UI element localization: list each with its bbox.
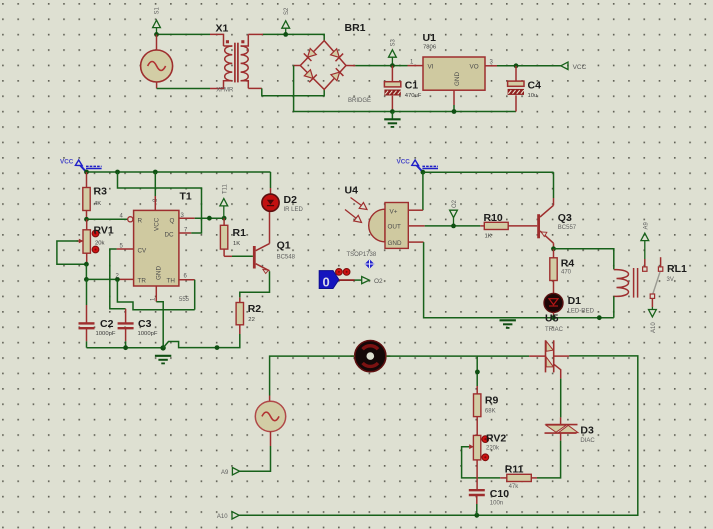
svg-text:X1: X1 bbox=[216, 23, 229, 35]
svg-text:R9: R9 bbox=[485, 395, 499, 407]
node S2 terminal bbox=[282, 7, 290, 34]
wire TR bus down bbox=[117, 279, 194, 309]
junction C4 top bbox=[514, 63, 519, 68]
power VCC symbol (left) bbox=[60, 159, 102, 172]
wire D3 to R11 bbox=[537, 441, 561, 478]
svg-text:VO: VO bbox=[470, 64, 479, 71]
VCC rail (receiver section) bbox=[423, 171, 554, 173]
node A9 terminal (left) bbox=[221, 468, 240, 477]
junction Q wire bbox=[207, 216, 212, 221]
junction rail 555 vcc bbox=[153, 170, 158, 175]
svg-text:220k: 220k bbox=[486, 446, 500, 452]
svg-text:BC557: BC557 bbox=[558, 225, 577, 231]
junction rail right bbox=[597, 315, 602, 320]
transistor Q3 bbox=[537, 198, 553, 249]
junction RV1 wiper bbox=[84, 262, 89, 267]
wire rail to D2 bbox=[270, 172, 272, 194]
node O2 input terminal bbox=[450, 199, 458, 226]
resistor R4 bbox=[550, 249, 557, 294]
wire 555 vcc pin bbox=[154, 172, 156, 210]
node A10 terminal (left) bbox=[217, 512, 239, 520]
junction R3/RV1 bbox=[84, 217, 89, 222]
relay RL1 contacts bbox=[643, 257, 663, 307]
wire reset pin bbox=[87, 218, 128, 220]
triac U5 bbox=[546, 340, 561, 378]
svg-text:TH: TH bbox=[167, 277, 176, 284]
wire probe to O2 bbox=[339, 279, 362, 281]
svg-text:TRIAC: TRIAC bbox=[545, 327, 564, 333]
svg-text:R11: R11 bbox=[505, 464, 524, 476]
IR receiver U4 bbox=[369, 203, 409, 249]
svg-text:Q3: Q3 bbox=[558, 212, 572, 224]
svg-text:U5: U5 bbox=[545, 313, 559, 325]
AC source V1 bbox=[141, 34, 173, 82]
svg-text:1000pF: 1000pF bbox=[96, 331, 116, 337]
bottom rail (555) bbox=[87, 347, 164, 349]
svg-text:BRIDGE: BRIDGE bbox=[348, 98, 371, 104]
junction U1 gnd bbox=[452, 109, 457, 114]
svg-text:XFMR: XFMR bbox=[216, 88, 234, 94]
svg-text:VI: VI bbox=[428, 64, 434, 71]
wire U1 GND pin to rail bbox=[453, 90, 455, 111]
svg-text:Q1: Q1 bbox=[277, 240, 291, 252]
wire bridge right to U1 bbox=[346, 65, 423, 67]
svg-text:C10: C10 bbox=[490, 488, 509, 500]
svg-text:T1: T1 bbox=[180, 191, 192, 203]
svg-text:10u: 10u bbox=[528, 93, 538, 99]
svg-text:A10: A10 bbox=[217, 514, 228, 520]
wire RV1 to TR bbox=[85, 264, 87, 279]
junction VCC right bbox=[421, 170, 426, 175]
potentiometer RV1 bbox=[57, 219, 91, 264]
transistor Q1 bbox=[253, 211, 270, 273]
wire transformer secondary top to bridge bbox=[248, 34, 324, 41]
voltage regulator U1 bbox=[423, 57, 485, 90]
led D2 bbox=[262, 194, 279, 211]
bridge rectifier BR1 bbox=[300, 41, 346, 90]
resistor R2 bbox=[236, 297, 243, 334]
svg-text:0: 0 bbox=[323, 275, 330, 290]
svg-text:TSOP1738: TSOP1738 bbox=[347, 252, 377, 258]
svg-text:R4: R4 bbox=[561, 258, 575, 270]
svg-text:D1: D1 bbox=[568, 295, 582, 307]
potentiometer RV2 bbox=[462, 435, 501, 490]
wire 555 gnd pin bbox=[156, 286, 163, 310]
svg-text:A9: A9 bbox=[643, 221, 649, 229]
svg-text:RL1: RL1 bbox=[667, 263, 687, 275]
relay RL1 coil bbox=[614, 268, 638, 298]
capacitor C2 bbox=[79, 279, 95, 347]
wire V2 to A9 bbox=[240, 432, 271, 472]
svg-text:7806: 7806 bbox=[423, 45, 437, 51]
svg-text:D2: D2 bbox=[284, 194, 298, 206]
wire Q1 emitter to R2 bbox=[240, 271, 270, 297]
svg-text:O2: O2 bbox=[374, 278, 383, 285]
svg-text:20k: 20k bbox=[95, 241, 105, 247]
wire V1 bottom to transformer bbox=[157, 80, 224, 89]
wire Q3 to relay coil bbox=[554, 249, 614, 270]
node T11 terminal bbox=[220, 183, 228, 218]
svg-text:TR: TR bbox=[138, 277, 147, 284]
lamp bbox=[351, 341, 391, 372]
svg-text:555: 555 bbox=[179, 297, 190, 303]
svg-text:C4: C4 bbox=[528, 80, 542, 92]
svg-text:GND: GND bbox=[454, 72, 461, 86]
RV2 red marker bottom bbox=[482, 454, 489, 461]
wire VCC to U4 V+ bbox=[408, 172, 423, 210]
svg-text:A9: A9 bbox=[221, 470, 229, 476]
junction TR bbox=[84, 277, 89, 282]
node A9 relay terminal bbox=[641, 221, 649, 259]
RV1 red marker bottom bbox=[92, 246, 99, 253]
wire 555 output Q bbox=[179, 217, 224, 219]
junction C3 bottom bbox=[123, 345, 128, 350]
wire gnd bus down bbox=[162, 310, 164, 348]
timer T1 (555) body bbox=[128, 210, 179, 286]
probe state marker 1 bbox=[336, 269, 343, 276]
junction S1 bbox=[154, 32, 159, 37]
wire U1 output bbox=[485, 65, 561, 67]
wire bridge left to ground rail bbox=[294, 66, 393, 112]
junction S2 bbox=[283, 32, 288, 37]
ground rail under U1 bbox=[392, 111, 516, 113]
svg-text:R1: R1 bbox=[233, 227, 247, 239]
svg-text:U4: U4 bbox=[345, 185, 359, 197]
transformer X1 bbox=[224, 34, 249, 88]
capacitor C1 bbox=[384, 66, 400, 112]
junction rail pin7 branch bbox=[115, 170, 120, 175]
wire 555 DC pin to rail bbox=[118, 172, 202, 233]
svg-text:IR LED: IR LED bbox=[284, 207, 304, 213]
junction TR bus bbox=[115, 277, 120, 282]
svg-text:OUT: OUT bbox=[388, 224, 401, 231]
junction O2/OUT bbox=[451, 224, 456, 229]
wire triac gate to D3 bbox=[560, 379, 562, 418]
svg-text:100n: 100n bbox=[490, 501, 503, 507]
svg-text:1K: 1K bbox=[485, 234, 492, 240]
U4 IR arrow 1 bbox=[351, 198, 370, 213]
wire lamp to V2 bbox=[270, 356, 355, 402]
junction C10 bottom bbox=[474, 513, 479, 518]
svg-text:U1: U1 bbox=[423, 32, 437, 44]
marker diamond bbox=[365, 259, 375, 269]
junction Q/R1/T11 bbox=[222, 216, 227, 221]
resistor R3 bbox=[83, 172, 90, 219]
resistor R9 bbox=[474, 394, 481, 436]
resistor R10 bbox=[484, 222, 508, 229]
node A10 relay terminal bbox=[649, 307, 658, 333]
junction rail R2 bbox=[215, 345, 220, 350]
svg-text:VCC: VCC bbox=[154, 217, 161, 231]
ground (555) bbox=[155, 355, 171, 357]
RV1 red marker top bbox=[92, 230, 99, 237]
junction R9 branch bbox=[475, 370, 480, 375]
resistor R11 bbox=[500, 474, 537, 481]
junction rail R3 bbox=[84, 170, 89, 175]
svg-text:1K: 1K bbox=[233, 241, 240, 247]
wire U4 GND down bbox=[408, 242, 614, 318]
bottom rail A10 bbox=[239, 356, 638, 515]
logic probe 0 bbox=[319, 271, 339, 290]
svg-text:S3: S3 bbox=[391, 38, 397, 46]
svg-text:T11: T11 bbox=[222, 183, 228, 194]
junction C1 top bbox=[390, 63, 395, 68]
svg-text:LED-RED: LED-RED bbox=[568, 309, 595, 315]
ground (top rail) bbox=[384, 112, 400, 127]
svg-text:1000pF: 1000pF bbox=[138, 331, 158, 337]
node S3 terminal bbox=[389, 38, 397, 65]
svg-text:A10: A10 bbox=[651, 322, 657, 333]
diac D3 bbox=[545, 417, 579, 440]
node S1 terminal bbox=[153, 6, 161, 34]
svg-text:470uF: 470uF bbox=[405, 93, 422, 99]
capacitor C4 bbox=[508, 66, 524, 112]
svg-text:68K: 68K bbox=[485, 409, 496, 415]
resistor R1 bbox=[220, 218, 232, 256]
wire triac right side bbox=[554, 355, 570, 357]
svg-text:S1: S1 bbox=[155, 6, 161, 14]
wire R1 to Q1 base bbox=[232, 255, 253, 257]
svg-text:R: R bbox=[138, 217, 143, 224]
wire U4 OUT to R10 bbox=[408, 225, 484, 227]
junction Q3 collector bbox=[551, 246, 556, 251]
svg-text:C3: C3 bbox=[138, 318, 152, 330]
junction C1 bottom bbox=[390, 109, 395, 114]
svg-text:GND: GND bbox=[388, 240, 402, 247]
svg-text:GND: GND bbox=[156, 266, 163, 280]
svg-text:DIAC: DIAC bbox=[580, 438, 595, 444]
power VCC symbol (right) bbox=[397, 159, 439, 172]
wire rail zigzag to R2 bbox=[163, 334, 240, 348]
svg-text:BC548: BC548 bbox=[277, 255, 296, 261]
svg-text:V+: V+ bbox=[390, 208, 398, 215]
wire relay coil to rail bbox=[613, 296, 615, 317]
junction ground 555 bbox=[160, 345, 165, 350]
svg-text:R10: R10 bbox=[484, 212, 503, 224]
wire rail to Q3 bbox=[553, 172, 555, 198]
svg-text:C1: C1 bbox=[405, 80, 419, 92]
wire lamp to triac bbox=[386, 355, 545, 357]
svg-text:O2: O2 bbox=[452, 199, 458, 208]
svg-text:R3: R3 bbox=[94, 186, 108, 198]
svg-text:3V: 3V bbox=[667, 277, 674, 283]
wire transformer secondary bottom to bridge bbox=[248, 88, 324, 95]
node VCC output terminal bbox=[561, 62, 568, 69]
wire R10 to Q3 base bbox=[508, 225, 537, 227]
wire to R9 bbox=[476, 356, 478, 394]
wire TH pin down bbox=[179, 280, 195, 310]
svg-text:Q: Q bbox=[170, 217, 175, 224]
svg-text:DC: DC bbox=[165, 231, 175, 238]
svg-text:CV: CV bbox=[138, 247, 148, 254]
svg-text:R2: R2 bbox=[248, 303, 262, 315]
svg-text:22: 22 bbox=[248, 317, 255, 323]
U4 IR arrow 2 bbox=[345, 210, 364, 226]
AC source V2 bbox=[255, 401, 285, 431]
probe state marker 2 bbox=[343, 269, 350, 276]
wire D1 to rail bbox=[553, 312, 555, 317]
led D1 bbox=[544, 293, 563, 312]
capacitor C10 bbox=[469, 490, 485, 515]
svg-text:BR1: BR1 bbox=[345, 22, 366, 34]
svg-text:RV2: RV2 bbox=[486, 433, 506, 445]
svg-text:S2: S2 bbox=[284, 7, 290, 15]
svg-text:VCC: VCC bbox=[397, 159, 411, 166]
svg-text:VCC: VCC bbox=[573, 64, 587, 71]
junction D1 rail bbox=[551, 315, 556, 320]
svg-text:D3: D3 bbox=[580, 425, 594, 437]
VCC rail (555 section) bbox=[87, 171, 271, 173]
svg-text:4K: 4K bbox=[94, 201, 101, 207]
svg-text:470: 470 bbox=[561, 270, 572, 276]
ground (receiver) bbox=[500, 319, 516, 321]
RV2 red marker top bbox=[482, 436, 489, 443]
wire TR branch bbox=[86, 278, 133, 280]
wire 555 CV to C3 bbox=[110, 249, 134, 309]
svg-text:47k: 47k bbox=[509, 484, 520, 490]
svg-text:C2: C2 bbox=[100, 318, 114, 330]
node O2 output terminal bbox=[362, 277, 383, 285]
wire V1 top to transformer bbox=[157, 34, 224, 46]
svg-text:VCC: VCC bbox=[60, 159, 74, 166]
capacitor C3 bbox=[118, 309, 134, 348]
svg-text:RV1: RV1 bbox=[94, 225, 114, 237]
